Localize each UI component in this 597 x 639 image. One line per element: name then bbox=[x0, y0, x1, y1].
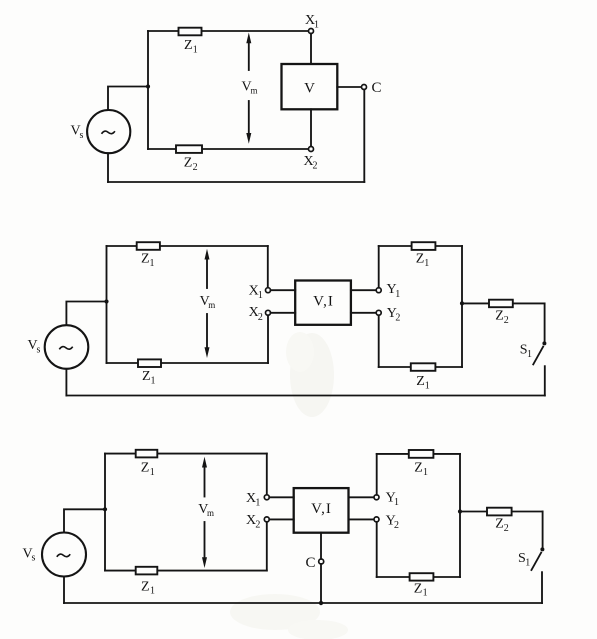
terminal C bbox=[362, 85, 367, 90]
svg-text:1: 1 bbox=[258, 290, 263, 301]
svg-text:2: 2 bbox=[313, 161, 318, 172]
wire top branch bbox=[148, 30, 309, 32]
wire bottom branch right bbox=[379, 366, 462, 368]
wire source top lead bbox=[64, 509, 105, 532]
svg-text:m: m bbox=[208, 300, 215, 310]
wire meter to C bbox=[337, 86, 361, 88]
resistor Z1 top-right bbox=[409, 450, 434, 458]
wire source top lead bbox=[108, 87, 148, 111]
wire X vertical lower bbox=[266, 522, 268, 571]
wire X1 to box bbox=[271, 289, 296, 291]
wire box to Y1 bbox=[351, 289, 376, 291]
wire Y vertical lower bbox=[378, 315, 380, 367]
wire to Z2 bbox=[462, 302, 545, 304]
svg-text:Z: Z bbox=[141, 252, 150, 267]
wire bottom branch right bbox=[377, 576, 460, 578]
svg-text:s: s bbox=[80, 130, 84, 141]
terminal Y1 bbox=[374, 495, 379, 500]
wire bottom branch left bbox=[105, 570, 267, 572]
wire right vertical bbox=[461, 246, 463, 367]
svg-text:2: 2 bbox=[504, 523, 509, 534]
terminal Y2 bbox=[376, 310, 381, 315]
resistor Z2 bbox=[176, 145, 202, 153]
svg-text:2: 2 bbox=[255, 519, 260, 530]
wire X2 to box bbox=[271, 312, 296, 314]
wire C down bbox=[363, 90, 365, 183]
wire bottom branch bbox=[148, 148, 309, 150]
svg-text:2: 2 bbox=[395, 313, 400, 324]
svg-text:1: 1 bbox=[394, 497, 399, 508]
terminal X2 bbox=[309, 147, 314, 152]
wire meter to X2 bbox=[310, 109, 312, 146]
wire X1 to meter bbox=[310, 34, 312, 65]
terminal X2 bbox=[264, 517, 269, 522]
svg-text:Z: Z bbox=[141, 461, 150, 476]
wire X2 to box bbox=[269, 518, 293, 520]
resistor Z1 bbox=[179, 28, 202, 36]
resistor Z1 bottom-left bbox=[138, 359, 161, 367]
wire C down bbox=[320, 564, 322, 603]
wire X vertical upper bbox=[266, 454, 268, 495]
wire box to Y1 bbox=[349, 496, 375, 498]
switch S1 blade bbox=[533, 346, 544, 365]
svg-text:Z: Z bbox=[184, 38, 193, 53]
meter V box bbox=[282, 64, 338, 109]
resistor Z1 top-left bbox=[136, 450, 158, 458]
svg-text:s: s bbox=[32, 553, 36, 564]
sine symbol bbox=[102, 131, 115, 134]
wire top branch right bbox=[379, 245, 462, 247]
wire Y vertical upper bbox=[378, 246, 380, 288]
wire box to Y2 bbox=[351, 312, 376, 314]
wire bottom return bbox=[66, 395, 544, 397]
terminal Y1 bbox=[376, 288, 381, 293]
svg-text:1: 1 bbox=[525, 558, 530, 569]
svg-text:s: s bbox=[37, 344, 41, 355]
svg-text:Z: Z bbox=[495, 308, 504, 323]
wire switch top lead bbox=[542, 512, 544, 548]
svg-text:1: 1 bbox=[423, 467, 428, 478]
wire Y vertical upper bbox=[376, 454, 378, 495]
svg-text:Z: Z bbox=[416, 251, 425, 266]
switch S1 blade bbox=[531, 552, 542, 571]
svg-text:V,I: V,I bbox=[313, 293, 334, 309]
svg-text:Z: Z bbox=[414, 581, 423, 596]
svg-text:Z: Z bbox=[141, 579, 150, 594]
svg-text:Z: Z bbox=[495, 517, 504, 532]
wire left vertical bbox=[106, 246, 108, 363]
svg-text:1: 1 bbox=[255, 497, 260, 508]
terminal X1 bbox=[264, 495, 269, 500]
switch dot bbox=[540, 547, 544, 551]
wire bottom return bbox=[108, 181, 364, 183]
resistor Z2 bbox=[489, 300, 513, 308]
resistor Z2 bbox=[487, 508, 512, 516]
svg-text:m: m bbox=[207, 508, 214, 518]
svg-text:V,I: V,I bbox=[311, 501, 332, 517]
wire source bottom lead bbox=[65, 369, 67, 396]
svg-text:C: C bbox=[372, 80, 382, 96]
wire source top lead bbox=[66, 302, 106, 326]
source Vs bbox=[87, 110, 130, 153]
svg-text:1: 1 bbox=[425, 380, 430, 391]
box V,I bbox=[295, 281, 351, 325]
wire right vertical bbox=[459, 454, 461, 577]
svg-text:Z: Z bbox=[414, 461, 423, 476]
junction dot bbox=[146, 84, 150, 88]
svg-text:Z: Z bbox=[142, 369, 151, 384]
arrow Vm upper bbox=[206, 258, 208, 288]
wire source bottom lead bbox=[63, 577, 65, 603]
junction dot on bottom wire bbox=[319, 601, 323, 605]
svg-text:1: 1 bbox=[395, 289, 400, 300]
wire X1 to box bbox=[269, 496, 293, 498]
wire Y vertical lower bbox=[376, 522, 378, 577]
svg-text:C: C bbox=[306, 555, 316, 571]
svg-text:V: V bbox=[304, 81, 315, 97]
svg-text:1: 1 bbox=[314, 19, 319, 30]
resistor Z1 bottom-left bbox=[136, 567, 158, 575]
source Vs bbox=[42, 533, 86, 577]
terminal X1 bbox=[309, 29, 314, 34]
resistor Z1 top-right bbox=[412, 242, 436, 250]
svg-text:1: 1 bbox=[527, 349, 532, 360]
wire to Z2 bbox=[460, 511, 543, 513]
svg-text:1: 1 bbox=[150, 467, 155, 478]
sine symbol bbox=[59, 347, 72, 350]
resistor Z1 top-left bbox=[137, 242, 160, 250]
svg-text:2: 2 bbox=[504, 315, 509, 326]
terminal C bbox=[319, 559, 324, 564]
wire X vertical upper bbox=[267, 246, 269, 288]
arrow Vm upper bbox=[204, 466, 206, 497]
switch dot bbox=[542, 341, 546, 345]
svg-text:1: 1 bbox=[193, 45, 198, 56]
wire box to C terminal bbox=[320, 533, 322, 559]
wire box to Y2 bbox=[349, 518, 375, 520]
svg-text:2: 2 bbox=[394, 520, 399, 531]
box V,I bbox=[294, 488, 349, 533]
wire bottom return bbox=[64, 602, 542, 604]
arrow Vm lower bbox=[248, 101, 250, 134]
svg-text:2: 2 bbox=[193, 162, 198, 173]
arrow Vm upper bbox=[248, 42, 250, 70]
wire left vertical bbox=[104, 454, 106, 571]
svg-text:1: 1 bbox=[423, 588, 428, 599]
arrow Vm lower bbox=[206, 314, 208, 349]
svg-text:m: m bbox=[251, 85, 258, 95]
resistor Z1 bottom-right bbox=[411, 363, 436, 371]
sine symbol bbox=[57, 554, 70, 557]
source Vs bbox=[45, 325, 89, 369]
wire source bottom lead bbox=[107, 153, 109, 182]
junction dot bbox=[104, 299, 108, 303]
svg-text:1: 1 bbox=[424, 258, 429, 269]
wire switch bottom lead bbox=[541, 572, 543, 603]
junction dot bbox=[103, 507, 107, 511]
svg-text:1: 1 bbox=[151, 375, 156, 386]
wire switch top lead bbox=[544, 303, 546, 341]
terminal Y2 bbox=[374, 517, 379, 522]
svg-text:Z: Z bbox=[416, 374, 425, 389]
junction dot bbox=[460, 301, 464, 305]
wire switch bottom lead bbox=[544, 366, 546, 395]
wire top branch left bbox=[107, 245, 268, 247]
svg-text:1: 1 bbox=[150, 258, 155, 269]
arrow Vm lower bbox=[204, 522, 206, 559]
svg-text:2: 2 bbox=[258, 312, 263, 323]
wire X vertical lower bbox=[267, 315, 269, 363]
wire top branch left bbox=[105, 453, 267, 455]
wire top branch right bbox=[377, 453, 460, 455]
wire left vertical bbox=[147, 31, 149, 149]
resistor Z1 bottom-right bbox=[410, 573, 434, 580]
junction dot bbox=[458, 509, 462, 513]
terminal X1 bbox=[266, 288, 271, 293]
terminal X2 bbox=[266, 310, 271, 315]
svg-text:1: 1 bbox=[150, 586, 155, 597]
svg-text:Z: Z bbox=[184, 156, 193, 171]
wire bottom branch left bbox=[107, 362, 269, 364]
faint scan smudges bbox=[290, 333, 334, 417]
